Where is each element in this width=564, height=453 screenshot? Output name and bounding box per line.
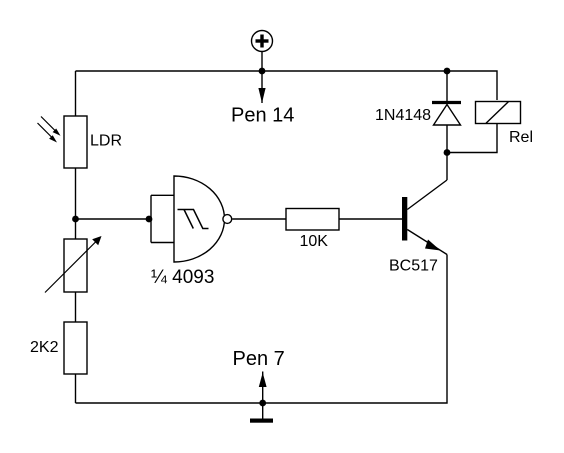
pen 14 arrow <box>258 71 265 103</box>
junction dot diode relay node <box>444 149 451 156</box>
wire left rail upper <box>75 71 77 116</box>
junction dot gate input <box>146 216 153 223</box>
wire pot to 2K2 <box>75 292 77 322</box>
svg-text:BC517: BC517 <box>389 258 438 275</box>
transistor Q1 BC517 <box>402 180 447 255</box>
resistor 10K <box>286 209 339 231</box>
potentiometer P1 <box>45 236 102 293</box>
relay Rel <box>447 102 521 153</box>
pen 7 arrow <box>259 372 267 404</box>
junction dot node A <box>72 216 79 223</box>
svg-text:Pen 14: Pen 14 <box>231 105 294 127</box>
junction dot supply node <box>259 68 266 75</box>
wire node A to gate input <box>76 218 152 220</box>
svg-text:1N4148: 1N4148 <box>375 107 431 124</box>
wire gate output to resistor <box>232 218 286 220</box>
svg-text:¼ 4093: ¼ 4093 <box>151 267 214 288</box>
ground <box>250 403 273 423</box>
wire emitter to bottom rail <box>76 255 448 404</box>
svg-text:LDR: LDR <box>90 133 122 150</box>
supply symbol + <box>252 31 273 72</box>
resistor 2K2 <box>64 322 87 374</box>
nand gate U1 quarter 4093 <box>174 176 232 262</box>
wire resistor to base <box>339 218 402 220</box>
photoresistor LDR <box>38 116 88 168</box>
svg-text:Rel: Rel <box>509 129 533 146</box>
svg-text:2K2: 2K2 <box>30 339 59 356</box>
svg-text:Pen 7: Pen 7 <box>233 348 285 370</box>
diode D1 1N4148 <box>432 71 461 153</box>
wire collector to diode node <box>446 153 448 181</box>
wire 2K2 to bottom rail <box>75 374 77 403</box>
wire top rail <box>76 71 498 100</box>
junction dot ground node <box>259 400 266 407</box>
wire LDR to pot <box>75 168 77 239</box>
wire gate input bracket <box>150 195 152 242</box>
svg-text:10K: 10K <box>300 233 329 250</box>
junction dot top rail right <box>444 68 451 75</box>
